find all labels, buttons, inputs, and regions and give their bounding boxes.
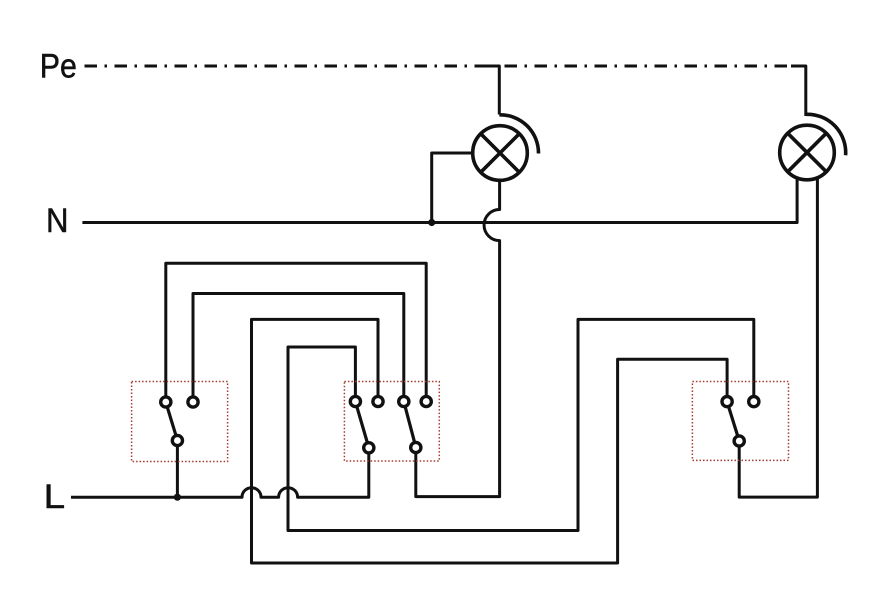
switch S3 pin2 (749, 397, 759, 407)
wire lamp E1 left terminal to N (432, 153, 473, 221)
switch box S1 (red dotted) (132, 382, 228, 462)
switch S1 common (172, 435, 182, 445)
switch box S2 (red dotted) (344, 382, 439, 462)
switch S2 lever b (405, 407, 414, 442)
wire lamp E1 bottom terminal, jump over N, down to L level, left to switch S2 output (416, 180, 500, 497)
wire S1 pin2 riser, bus H2, down to S2 pin3 (193, 294, 404, 397)
lamp E1 (473, 115, 539, 181)
wire S2 pin2 riser, bus H3, down under L hump1, bottom bus, up to S3 pin1 (252, 319, 728, 563)
svg-text:Pe: Pe (40, 48, 77, 86)
junction dot on N (428, 219, 435, 226)
switch S2 pin2 (373, 396, 383, 406)
svg-text:L: L (44, 478, 65, 516)
wire Pe rail (dash-dot) (85, 65, 792, 68)
switch S2 pin4 (421, 396, 431, 406)
wire N rail (82, 178, 797, 222)
wire lamp E1 drop from Pe (487, 66, 499, 115)
switch S2 pin3 (399, 396, 409, 406)
switch S2 common b (411, 442, 421, 452)
wire lamp E2 right terminal down to L level, left to switch S3 output (739, 178, 817, 497)
wire S1 pin1 riser, top bus H1, down to S2 pin4 (166, 263, 426, 396)
switch S2 lever a (357, 407, 367, 443)
svg-text:N: N (46, 202, 69, 240)
switch box S3 (red dotted) (692, 382, 788, 461)
lamp E2 (780, 114, 846, 180)
switch S3 common (734, 436, 744, 446)
switch S2 pin1 (350, 396, 360, 406)
switch S3 lever (729, 407, 738, 436)
switch S1 pin1 (161, 397, 171, 407)
wire lamp E2 drop from Pe (solid corner from dash-dot rail) (791, 66, 806, 116)
wire L rail with humps over two verticals (71, 453, 369, 497)
switch S3 pin1 (722, 397, 732, 407)
switch S1 lever (167, 407, 176, 435)
wire S1 common terminal down to L (176, 446, 179, 497)
wire S2 pin1 riser, bus H4, down under L hump2, middle bus, up to S3 pin2 (288, 319, 754, 530)
junction dot on L (174, 494, 181, 501)
switch S2 common a (364, 443, 374, 453)
switch S1 pin2 (188, 397, 198, 407)
